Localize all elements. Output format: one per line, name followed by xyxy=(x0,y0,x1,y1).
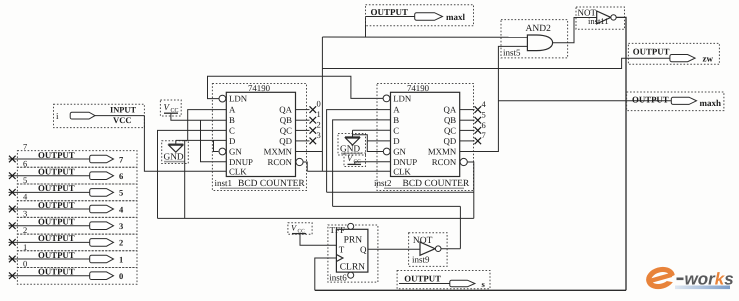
svg-text:B: B xyxy=(393,115,399,125)
output pin stack rows 7..0 xyxy=(9,142,138,285)
svg-text:RCON: RCON xyxy=(268,157,293,167)
pin bubble LDN2 xyxy=(383,95,390,102)
wire GND2 to D2 staircase xyxy=(353,135,391,141)
pin bubble RCON2 xyxy=(460,158,467,165)
wire RCON2 drop to bus xyxy=(467,162,474,218)
svg-text:inst11: inst11 xyxy=(588,16,609,26)
svg-text:QD: QD xyxy=(279,136,292,146)
wire Vcc to T input xyxy=(300,234,336,246)
wire GND1 net drop to bottom bus xyxy=(184,140,186,218)
svg-text:0: 0 xyxy=(119,271,123,281)
output pin 4 xyxy=(9,192,138,218)
svg-text:OUTPUT: OUTPUT xyxy=(38,167,75,177)
svg-text:GN: GN xyxy=(393,147,406,157)
wire MXMN1 to vertical xyxy=(296,151,323,153)
wire QD1 stub xyxy=(296,140,310,142)
svg-text:NOT: NOT xyxy=(413,236,433,246)
svg-text:1: 1 xyxy=(23,242,27,252)
svg-text:DNUP: DNUP xyxy=(229,157,253,167)
wire input lead xyxy=(95,115,144,117)
wire QB2 stub xyxy=(460,119,475,121)
svg-text:D: D xyxy=(229,136,235,146)
svg-text:D: D xyxy=(393,136,399,146)
wire GND1 to D1 xyxy=(176,139,227,141)
ground GND1 xyxy=(162,140,189,163)
svg-text:2: 2 xyxy=(317,119,321,129)
wire maxh feed xyxy=(498,100,673,102)
svg-text:OUTPUT: OUTPUT xyxy=(632,95,669,105)
svg-text:RCON: RCON xyxy=(432,157,457,167)
svg-text:2: 2 xyxy=(119,238,123,248)
svg-text:QB: QB xyxy=(444,115,456,125)
wire NOT9 out xyxy=(441,248,460,250)
wire QA1 stub xyxy=(296,109,310,111)
svg-text:0: 0 xyxy=(23,259,27,269)
output pin zw xyxy=(628,43,719,64)
wire NOT11 output down long xyxy=(616,17,626,290)
output pin 7 xyxy=(9,142,138,168)
output pin 5 xyxy=(9,175,138,201)
svg-text:LDN: LDN xyxy=(229,94,248,104)
wire GND2 to C2 xyxy=(353,129,391,131)
wire QC2 stub xyxy=(460,129,475,131)
svg-text:A: A xyxy=(229,105,236,115)
svg-text:QD: QD xyxy=(443,136,456,146)
flip-flop TFF inst6 xyxy=(328,223,378,282)
wire A2 riser from lower net xyxy=(327,110,391,193)
svg-text:1: 1 xyxy=(317,109,321,119)
svg-text:OUTPUT: OUTPUT xyxy=(38,267,75,277)
wire bottom return xyxy=(315,289,626,291)
output pin 2 xyxy=(9,225,138,251)
svg-text:7: 7 xyxy=(482,130,486,140)
svg-text:maxh: maxh xyxy=(700,98,722,108)
svg-text:3: 3 xyxy=(317,130,321,140)
svg-text:OUTPUT: OUTPUT xyxy=(38,150,75,160)
svg-text:CLRN: CLRN xyxy=(340,263,365,273)
wire GND1 net to GN1 xyxy=(214,140,219,151)
wire LDN1 loop to LDN2 xyxy=(208,76,384,98)
svg-text:OUTPUT: OUTPUT xyxy=(38,183,75,193)
svg-text:OUTPUT: OUTPUT xyxy=(38,250,75,260)
svg-text:QA: QA xyxy=(279,105,292,115)
wire gnd2 stem xyxy=(352,130,354,137)
svg-text:3: 3 xyxy=(119,221,123,231)
svg-text:5: 5 xyxy=(119,188,123,198)
wire bottom bus xyxy=(158,217,474,219)
wire QD2 stub xyxy=(460,140,475,142)
e-works logo xyxy=(647,264,734,293)
svg-text:QA: QA xyxy=(443,105,456,115)
wire NOT9 output horizontal xyxy=(333,205,461,207)
ground GND2 xyxy=(338,130,366,155)
svg-text:5: 5 xyxy=(23,175,27,185)
svg-text:MXMN: MXMN xyxy=(428,147,457,157)
pin bubble CLRN xyxy=(348,272,354,278)
wire H1 top (to AND2 input / maxl) xyxy=(322,36,527,38)
svg-text:A: A xyxy=(393,105,400,115)
svg-text:6: 6 xyxy=(119,171,123,181)
svg-text:1: 1 xyxy=(119,254,123,264)
svg-text:Q: Q xyxy=(360,244,367,254)
wire MXMN2 riser to AND2 xyxy=(460,46,528,151)
svg-text:6: 6 xyxy=(482,120,486,130)
wire P mid horizontal xyxy=(327,191,474,193)
pin bubble PRN xyxy=(348,223,354,229)
svg-text:QC: QC xyxy=(280,125,292,135)
svg-text:inst9: inst9 xyxy=(412,255,430,265)
not gate NOT inst9 xyxy=(409,233,461,267)
wire AND2 output xyxy=(553,18,597,43)
svg-text:inst6: inst6 xyxy=(329,273,347,283)
wire GND2 to GN2 xyxy=(367,141,383,152)
BCD counter U2 74190 inst2 xyxy=(374,83,474,191)
svg-text:B: B xyxy=(229,115,235,125)
svg-text:C: C xyxy=(229,125,235,135)
wire C1 to left riser xyxy=(158,130,227,218)
svg-text:CLK: CLK xyxy=(229,166,247,176)
output pin s xyxy=(397,271,490,290)
svg-text:6: 6 xyxy=(23,158,27,168)
not gate NOT inst11 xyxy=(576,7,626,290)
pin bubble RCON1 xyxy=(296,158,303,165)
svg-text:C: C xyxy=(393,125,399,135)
wire A1 down to GND1 net xyxy=(188,110,227,141)
svg-text:3: 3 xyxy=(23,208,27,218)
svg-text:QC: QC xyxy=(444,125,456,135)
svg-text:0: 0 xyxy=(317,99,321,109)
wire zw feed xyxy=(322,58,671,68)
wire RCON1 to CLK2 line xyxy=(303,162,307,171)
svg-text:5: 5 xyxy=(482,110,486,120)
svg-text:OUTPUT: OUTPUT xyxy=(38,200,75,210)
wire QC1 stub xyxy=(296,129,310,131)
wire TFF Q to NOT9 xyxy=(368,248,420,250)
svg-text:QB: QB xyxy=(280,115,292,125)
svg-text:MXMN: MXMN xyxy=(264,147,293,157)
svg-text:OUTPUT: OUTPUT xyxy=(38,233,75,243)
wire B2 riser from NOT9 net xyxy=(333,120,391,206)
svg-text:7: 7 xyxy=(23,142,27,152)
svg-text:VCC: VCC xyxy=(113,115,132,125)
svg-text:OUTPUT: OUTPUT xyxy=(38,217,75,227)
svg-text:DNUP: DNUP xyxy=(393,157,417,167)
power VCC symbol (TFF) xyxy=(288,223,337,246)
wire vertical V1 maxl/AND to CLK2 line xyxy=(321,37,323,171)
wire NOT9 output riser xyxy=(459,206,461,248)
wire CLK2 feed xyxy=(307,170,390,172)
output pin 6 xyxy=(9,158,138,184)
svg-text:inst1: inst1 xyxy=(215,178,233,188)
output pin 0 xyxy=(9,259,138,285)
svg-text:zw: zw xyxy=(703,54,714,64)
wire QB1 stub xyxy=(296,119,310,121)
svg-text:T: T xyxy=(339,244,345,254)
and gate AND2 inst5 xyxy=(501,18,597,58)
svg-text:AND2: AND2 xyxy=(526,24,552,34)
wire maxl riser xyxy=(365,17,367,38)
svg-text:inst5: inst5 xyxy=(503,48,521,58)
output pin 3 xyxy=(9,208,138,234)
wire gnd stem xyxy=(175,140,177,144)
svg-text:74190: 74190 xyxy=(407,83,430,93)
wire QA2 stub xyxy=(460,109,475,111)
pin bubble GN2 xyxy=(383,148,390,155)
svg-text:74190: 74190 xyxy=(248,83,271,93)
wire TFF clock from bottom bus xyxy=(315,258,337,290)
wire Vcc2 to DNUP2 xyxy=(355,162,391,165)
power VCC symbol (counter2) xyxy=(344,153,391,167)
power VCC symbol (counter1) xyxy=(160,100,226,120)
BCD counter U1 74190 inst1 xyxy=(212,83,306,191)
clock wedge xyxy=(336,255,343,262)
svg-text:inst2: inst2 xyxy=(374,178,392,188)
output pin maxl xyxy=(366,5,474,26)
output pin 1 xyxy=(9,242,138,268)
output pin maxh xyxy=(627,92,724,111)
svg-text:OUTPUT: OUTPUT xyxy=(404,274,441,284)
svg-text:INPUT: INPUT xyxy=(110,106,136,115)
wire Vcc to B1 xyxy=(171,113,226,120)
svg-text:OUTPUT: OUTPUT xyxy=(633,47,670,57)
svg-text:CLK: CLK xyxy=(393,166,411,176)
svg-text:GN: GN xyxy=(229,147,242,157)
pin bubble LDN1 xyxy=(219,95,226,102)
svg-text:OUTPUT: OUTPUT xyxy=(371,7,409,17)
svg-text:LDN: LDN xyxy=(393,94,412,104)
wire B1 branch to DNUP1 xyxy=(201,120,227,162)
svg-text:2: 2 xyxy=(23,225,27,235)
svg-text:maxl: maxl xyxy=(446,12,465,22)
wire i to CLK1 xyxy=(144,116,226,172)
input pin i (INPUT VCC) xyxy=(54,104,145,127)
pin bubble GN1 xyxy=(219,148,226,155)
svg-text:TFF: TFF xyxy=(330,225,346,235)
